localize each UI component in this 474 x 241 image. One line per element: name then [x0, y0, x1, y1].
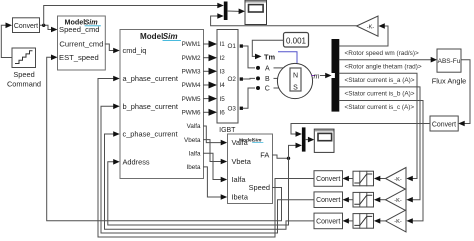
svg-text:Sim: Sim	[163, 32, 178, 41]
svg-text:<Rotor angle thetam (rad)>: <Rotor angle thetam (rad)>	[345, 63, 422, 70]
wire saturation row2 to convert row2	[349, 199, 354, 201]
svg-text:Speed: Speed	[249, 183, 270, 192]
svg-text:S: S	[293, 85, 298, 92]
block Speed Command (flipped staircase source)	[7, 48, 41, 89]
wire Ibeta from U2 to estimator	[204, 167, 221, 197]
svg-text:<Stator current is_a (A)>: <Stator current is_a (A)>	[345, 77, 415, 84]
svg-text:Address: Address	[123, 157, 150, 166]
wire bus output rotor angle to ABS-Func	[339, 59, 430, 61]
svg-text:Vbeta: Vbeta	[232, 157, 252, 166]
svg-text:-K-: -K-	[367, 24, 375, 30]
svg-text:IGBT: IGBT	[219, 127, 236, 134]
svg-text:Valfa: Valfa	[187, 123, 201, 130]
mux Mux1	[224, 2, 228, 21]
svg-text:Speed_cmd: Speed_cmd	[59, 25, 100, 34]
svg-text:m: m	[314, 71, 320, 80]
svg-text:Ialfa: Ialfa	[189, 151, 201, 158]
svg-text:-K-: -K-	[394, 198, 402, 204]
gain -K- bottom row3 (is_a scaling, flipped)	[386, 210, 407, 232]
wire ABS-Func output down to right Convert input	[461, 60, 470, 124]
svg-text:cmd_iq: cmd_iq	[123, 46, 147, 55]
saturation row3	[353, 214, 374, 229]
svg-text:Flux Angle: Flux Angle	[432, 77, 467, 86]
svg-text:I5: I5	[220, 96, 226, 103]
wire FA junction up to Mux2 second input	[289, 145, 296, 158]
junction node C	[256, 86, 260, 90]
wire O2 to motor terminal B	[243, 77, 255, 80]
wire Current_cmd to cmd_iq	[105, 44, 113, 51]
wire bus output stator current is_c down to bottom gain row1	[339, 101, 423, 221]
svg-text:I6: I6	[220, 110, 226, 117]
wire constant to Tm input	[252, 40, 283, 56]
svg-text:-K-: -K-	[394, 219, 402, 225]
svg-text:Tm: Tm	[264, 52, 276, 61]
wire Valfa from U2 to estimator	[204, 126, 221, 143]
saturation row2	[353, 192, 374, 207]
svg-text:Convert: Convert	[316, 197, 340, 204]
svg-text:Model: Model	[140, 32, 163, 41]
block U3 estimator ModelSim	[228, 134, 273, 204]
svg-text:<Stator current is_c (A)>: <Stator current is_c (A)>	[345, 104, 415, 111]
wire convert row2 output feedback to b_phase_current	[101, 106, 314, 233]
block U2 main ModelSim FPGA current controller	[120, 30, 204, 179]
svg-text:Convert: Convert	[432, 121, 456, 128]
svg-text:I1: I1	[220, 41, 226, 48]
svg-text:A: A	[265, 66, 270, 73]
wire gain1 output across to Mux1 second input	[211, 16, 357, 26]
wire saturation row3 to convert row3	[349, 220, 354, 222]
junction node speed command	[42, 24, 45, 27]
wire motor measurement output m to bus selector	[312, 75, 315, 77]
block U1 speed controller ModelSim	[58, 16, 106, 70]
svg-text:I3: I3	[220, 69, 226, 76]
svg-text:Ibeta: Ibeta	[186, 164, 201, 171]
svg-text:<Stator current is_b (A)>: <Stator current is_b (A)>	[345, 91, 415, 98]
gain -K- top (flipped, rad/s scaling)	[357, 16, 378, 36]
wire Ialfa from U2 to estimator	[204, 153, 221, 179]
svg-text:<Rotor speed wm (rad/s)>: <Rotor speed wm (rad/s)>	[345, 50, 419, 57]
svg-text:c_phase_current: c_phase_current	[123, 130, 178, 139]
wire Mux2 to Scope2	[306, 139, 309, 141]
wire bus output rotor speed to Gain1	[339, 26, 388, 46]
wire speed command up and across top to Mux1 first input	[44, 6, 218, 26]
bus selector	[332, 39, 340, 112]
scope Scope1	[245, 0, 267, 25]
block PMSM motor	[264, 52, 313, 99]
wires PWM1-PWM6 to IGBT I1-I6	[204, 44, 210, 112]
saturation row1	[353, 171, 374, 186]
convert row2	[314, 192, 343, 208]
wire saturation row1 to convert row1	[349, 178, 354, 180]
svg-text:I4: I4	[220, 82, 226, 89]
convert row1	[314, 171, 343, 187]
block Convert right (flux angle conversion, flipped)	[430, 116, 458, 131]
svg-text:O2: O2	[228, 76, 237, 83]
block IGBT inverter	[217, 30, 243, 135]
gain -K- bottom row2 (is_b scaling, flipped)	[386, 189, 407, 211]
svg-text:Ibeta: Ibeta	[232, 193, 249, 202]
svg-text:PWM5: PWM5	[182, 96, 201, 103]
svg-text:O3: O3	[228, 105, 237, 112]
svg-text:Ialfa: Ialfa	[232, 175, 247, 184]
svg-text:PWM3: PWM3	[182, 69, 201, 76]
svg-text:Valfa: Valfa	[232, 138, 249, 147]
wire O1 to motor terminal A	[243, 46, 255, 68]
wire FA output with junction	[273, 155, 289, 158]
svg-text:O1: O1	[228, 43, 237, 50]
wire bus output stator current is_b down to bottom gain row2	[339, 87, 420, 200]
wire Speed Command output left-up to Convert1 input	[1, 25, 12, 57]
svg-text:a_phase_current: a_phase_current	[123, 74, 178, 83]
svg-text:ABS-Fu: ABS-Fu	[438, 58, 461, 65]
svg-text:PWM4: PWM4	[182, 82, 201, 89]
svg-text:Convert: Convert	[316, 176, 340, 183]
scope Scope2	[314, 129, 334, 152]
svg-text:Convert: Convert	[316, 218, 340, 225]
svg-text:PWM1: PWM1	[182, 41, 201, 48]
svg-text:Vbeta: Vbeta	[184, 137, 201, 144]
wire FA junction down and left to Address input	[108, 158, 289, 225]
svg-text:C: C	[265, 86, 270, 93]
wire bus output stator current is_a down to bottom gain row3	[339, 73, 417, 178]
svg-text:-K-: -K-	[394, 177, 402, 183]
wire convert row1 output feedback to a_phase_current	[98, 79, 314, 238]
wire gain row3 to saturation row3	[380, 220, 386, 222]
svg-text:Command: Command	[7, 80, 41, 89]
wire right Convert output left to Mux2 first input	[291, 124, 430, 135]
wire Mux1 to Scope1	[228, 10, 239, 12]
junction node A	[256, 66, 260, 70]
svg-text:B: B	[265, 76, 270, 83]
wire gain row1 to saturation row1	[380, 178, 386, 180]
svg-text:I2: I2	[220, 55, 226, 62]
convert row3	[314, 213, 343, 229]
junction node B	[256, 76, 260, 80]
svg-text:Speed: Speed	[13, 70, 34, 79]
wire gain row2 to saturation row2	[380, 199, 386, 201]
svg-text:0.001: 0.001	[286, 36, 307, 45]
svg-text:PWM6: PWM6	[182, 110, 201, 117]
svg-text:PWM2: PWM2	[182, 55, 201, 62]
svg-text:Convert: Convert	[14, 23, 38, 30]
mux Mux2	[302, 127, 306, 151]
wire convert row3 output feedback to c_phase_current	[105, 134, 315, 229]
svg-text:b_phase_current: b_phase_current	[123, 102, 178, 111]
svg-text:EST_speed: EST_speed	[59, 53, 99, 62]
svg-text:Current_cmd: Current_cmd	[59, 40, 103, 49]
block Convert1 (top-left data type conversion)	[13, 18, 40, 33]
wire Convert1 output to Speed_cmd with junction	[40, 25, 52, 29]
svg-text:FA: FA	[260, 151, 269, 160]
block ABS-Func flux angle lookup	[432, 49, 467, 86]
wire O3 to motor terminal C	[243, 88, 255, 108]
gain -K- bottom row1 (is_c scaling, flipped)	[386, 168, 407, 190]
junction node FA	[287, 157, 290, 160]
wire Vbeta from U2 to estimator	[204, 140, 221, 162]
wire Speed output feedback to EST_speed	[47, 57, 282, 220]
block constant 0.001 load torque	[284, 33, 309, 48]
svg-text:N: N	[293, 72, 298, 79]
